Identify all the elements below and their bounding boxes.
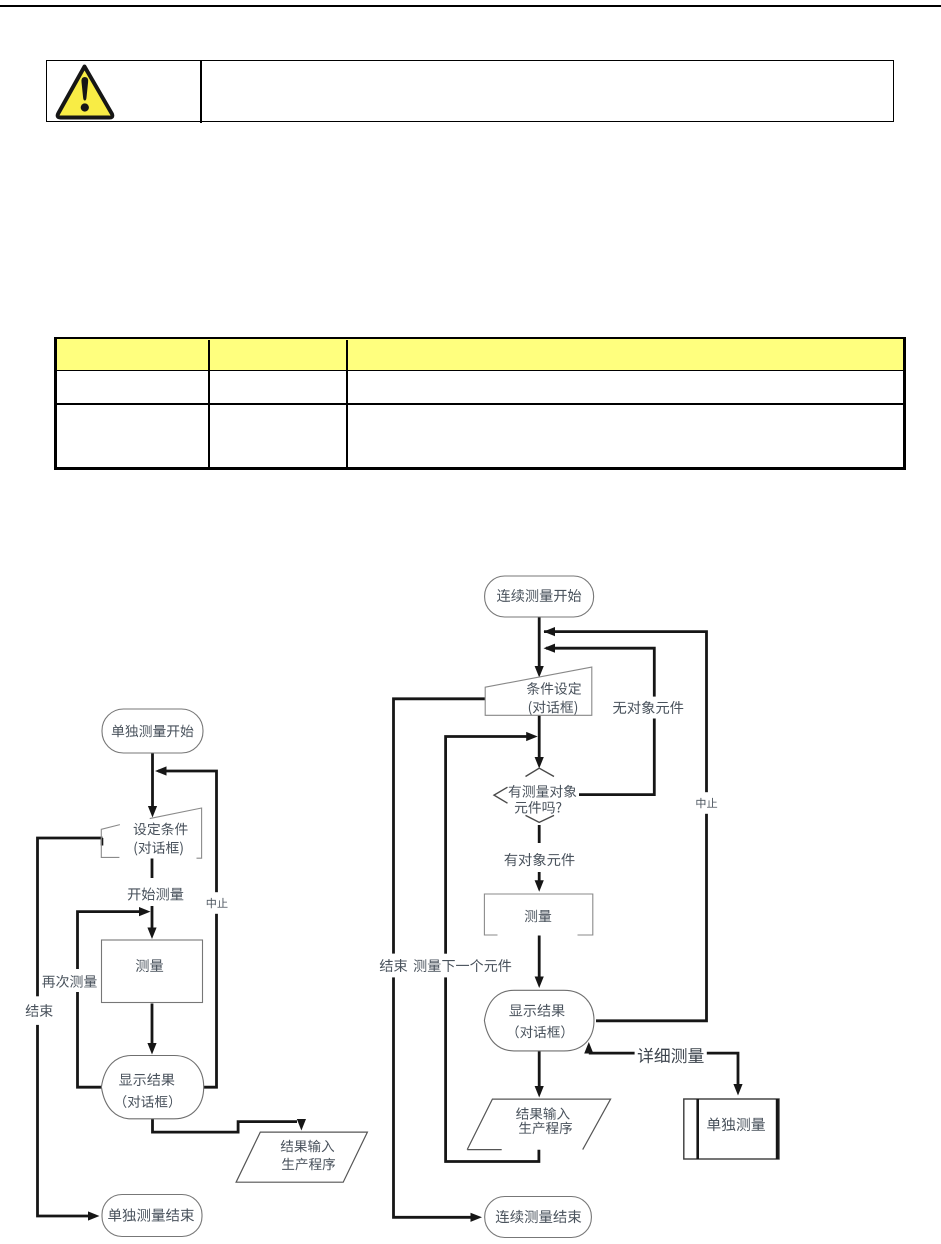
wire: right start stadium down xyxy=(538,617,541,672)
predefined process: single measurement xyxy=(684,1099,779,1159)
wire: dialog bottom to start-measure label xyxy=(151,859,154,879)
table row divider xyxy=(57,403,903,405)
top rule xyxy=(0,5,941,8)
display shape: show result (left) xyxy=(101,1056,203,1119)
wire: show result to parallelogram xyxy=(538,1051,541,1093)
wire: re-measure loop xyxy=(78,912,147,1088)
wire: dialog to decision xyxy=(538,716,541,734)
wire: no-object loop xyxy=(546,648,654,794)
warning box xyxy=(46,60,894,122)
label: abort (right) xyxy=(690,792,722,814)
process box: measure (left) xyxy=(102,940,203,1003)
table column divider 1 xyxy=(208,340,210,467)
warning triangle icon xyxy=(53,62,117,122)
wire: below label into measure box xyxy=(151,906,154,935)
terminator: continuous measurement end xyxy=(485,1197,592,1238)
wire: display-result to parallelogram xyxy=(153,1119,298,1132)
manual-input shape: set conditions (dialog) xyxy=(101,825,120,858)
process box: measure (right, open bottom) xyxy=(484,894,592,935)
terminator: single measurement end xyxy=(102,1195,202,1237)
wire: left start stadium to dialog shape xyxy=(151,753,154,812)
terminator: continuous measurement start xyxy=(485,576,594,617)
manual-input shape: condition setting (dialog) right xyxy=(485,667,592,715)
wire: detailed measurement branch xyxy=(589,1053,738,1091)
table header underline xyxy=(57,370,903,372)
wire: measure box to show result xyxy=(538,936,541,984)
warning box divider xyxy=(200,61,202,123)
parallelogram: result input (right, partial bottom) xyxy=(467,1099,610,1150)
wire: end line right chart xyxy=(394,699,486,1218)
label: start measurement xyxy=(126,885,186,903)
label: abort (left) xyxy=(201,892,233,914)
wire: measure-next-element loop xyxy=(446,737,539,1162)
label: has object element xyxy=(500,849,579,871)
wire: decision to measure box xyxy=(538,825,541,843)
label: no object element xyxy=(609,697,688,719)
decision text xyxy=(509,785,577,798)
decision marks xyxy=(526,768,555,776)
terminator: single measurement start xyxy=(102,709,203,753)
parallelogram: result input to production program (left) xyxy=(236,1132,367,1182)
table column divider 2 xyxy=(346,340,348,467)
label: end (left) xyxy=(18,996,60,1025)
wire: abort line (zhongzhi) left chart xyxy=(158,771,217,1087)
display shape: show result (right) xyxy=(484,990,594,1051)
table xyxy=(54,337,906,470)
wire: end line left chart xyxy=(38,838,103,1216)
labels: end / measure next element xyxy=(375,954,412,978)
wire: abort return (top junction) xyxy=(544,632,707,1021)
wire: measure box to display-result xyxy=(151,1004,154,1051)
label: measure again xyxy=(43,969,102,992)
table header row (yellow) xyxy=(57,339,903,370)
label: detailed measurement xyxy=(635,1044,707,1067)
